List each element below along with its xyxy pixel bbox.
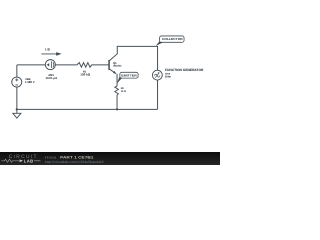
svg-text:I_B: I_B (45, 47, 51, 51)
svg-text:10 Ω: 10 Ω (121, 90, 126, 93)
svg-text:1.580 V: 1.580 V (25, 80, 35, 84)
svg-text:LAB: LAB (24, 159, 34, 164)
svg-text:FUNCTION GENERATOR: FUNCTION GENERATOR (165, 68, 204, 72)
svg-text:50 Hz: 50 Hz (165, 76, 172, 79)
svg-text:EMITTER: EMITTER (121, 73, 138, 77)
svg-text:Hosa : PART 1 CE7B1: Hosa : PART 1 CE7B1 (45, 155, 94, 159)
svg-text:http://circuitlab.com/c/354u5b: http://circuitlab.com/c/354u5bqwkzbf (45, 160, 104, 164)
svg-text:10.01 µA: 10.01 µA (45, 76, 58, 80)
svg-text:2N2222: 2N2222 (113, 64, 122, 67)
svg-text:COLLECTOR: COLLECTOR (162, 37, 184, 41)
svg-text:100 kΩ: 100 kΩ (80, 72, 91, 76)
